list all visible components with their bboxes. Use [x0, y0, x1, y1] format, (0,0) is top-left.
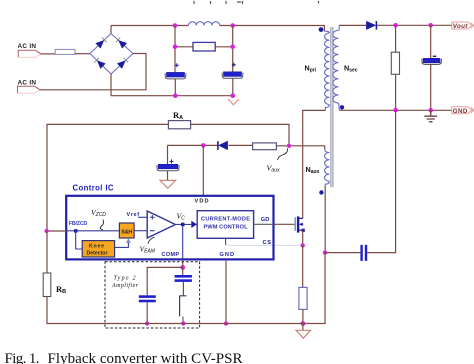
- phase dot secondary: [340, 105, 344, 109]
- junction: [428, 23, 433, 28]
- wire CS node to Rs: [302, 245, 304, 287]
- wire op-amp out: [175, 223, 191, 225]
- wire fuse to bridge: [75, 53, 90, 55]
- wire RB leads: [47, 231, 303, 324]
- svg-text:RB: RB: [56, 284, 66, 295]
- wire CS trace (faint): [226, 244, 303, 246]
- junction: [181, 321, 185, 325]
- bridge rectifier diamond: [90, 34, 133, 75]
- transformer secondary winding Nsec: [333, 25, 339, 110]
- wire Vref to op-amp: [139, 216, 147, 219]
- svg-text:AC IN: AC IN: [18, 43, 37, 50]
- inductor L1: [189, 22, 220, 26]
- resistor RA: [168, 121, 190, 129]
- wire COMP to C3 branch: [147, 267, 183, 295]
- wire P2 to bridge right vertex: [40, 54, 146, 90]
- junction VDD node: [201, 143, 206, 148]
- svg-text:PWM CONTROL: PWM CONTROL: [204, 225, 249, 231]
- port connector P2: [18, 86, 41, 93]
- junction: [428, 108, 433, 113]
- wire gate: [274, 223, 295, 225]
- wire Vout rail: [377, 24, 452, 26]
- wire secondary ground rail: [339, 109, 452, 111]
- svg-text:VZCD: VZCD: [91, 208, 106, 218]
- svg-text:CS: CS: [263, 240, 272, 246]
- wire C3 to ground bus: [146, 302, 148, 323]
- svg-text:RA: RA: [173, 110, 183, 121]
- capacitor Cout: [422, 56, 441, 64]
- junction: [230, 23, 235, 28]
- transformer aux winding Naux: [325, 149, 330, 186]
- svg-text:GND: GND: [220, 252, 235, 258]
- svg-text:FB/ZCD: FB/ZCD: [69, 221, 88, 227]
- wire left filter leg: [174, 26, 176, 73]
- junction: [173, 23, 178, 28]
- svg-text:Nsec: Nsec: [344, 64, 358, 74]
- capacitor C_VDD: [157, 159, 179, 170]
- transformer core: [331, 27, 333, 187]
- wire FB external: [47, 230, 67, 232]
- wire GD internal: [254, 223, 274, 225]
- earth ground (secondary): [424, 110, 437, 122]
- wire source: [302, 230, 304, 245]
- net label GND: [452, 107, 474, 115]
- signal arrow into PWM: [191, 221, 197, 228]
- wire COMP internal: [182, 226, 184, 259]
- junction: [231, 93, 236, 98]
- wire right filter leg: [232, 26, 234, 72]
- phase dot aux: [319, 190, 323, 194]
- svg-text:Vout: Vout: [453, 23, 468, 30]
- wire FB to knee detector: [76, 231, 83, 249]
- callout V_ZCD: [100, 220, 103, 231]
- resistor R jog (light): [179, 296, 186, 324]
- wire P1 to fuse: [41, 53, 55, 55]
- wire DC+ bus: [111, 26, 324, 32]
- junction: [145, 321, 149, 325]
- capacitor C2 bulk: [222, 63, 243, 79]
- wire C4 lead down: [182, 282, 184, 296]
- cropped title text fragments: [194, 1, 319, 4]
- wire IC GND pin to bus: [225, 261, 227, 324]
- wire RA top: [47, 124, 289, 231]
- wire FB internal: [66, 230, 119, 232]
- svg-text:VEAM: VEAM: [140, 245, 156, 255]
- bridge diode D1 (top-left, points NE): [96, 38, 107, 49]
- resistor Rs current sense: [299, 287, 307, 309]
- op-amp error comparator: [147, 211, 175, 238]
- svg-text:Knee: Knee: [89, 244, 104, 250]
- wire bridge minus down: [110, 74, 112, 96]
- junction primary ground: [301, 321, 306, 326]
- wire Rs to ground bus: [302, 309, 304, 323]
- resistor Rload: [391, 52, 399, 74]
- phase dot primary: [319, 27, 324, 32]
- svg-text:Amplifier: Amplifier: [111, 282, 139, 289]
- control IC box: [66, 196, 273, 260]
- resistor damping (filter): [193, 42, 215, 51]
- svg-text:CURRENT-MODE: CURRENT-MODE: [201, 217, 250, 223]
- junction FB pin: [74, 229, 77, 232]
- type 2 amplifier dashed box: [105, 262, 200, 328]
- bridge diode D3 (bottom-left, points NW): [95, 58, 106, 69]
- wire C2 to return bus: [232, 78, 234, 95]
- callout V_EAM: [148, 237, 155, 244]
- wire primary bottom to drain: [303, 110, 326, 218]
- resistor Rload leads: [395, 25, 397, 110]
- S and H block: [119, 223, 134, 238]
- fuse F1: [55, 49, 75, 54]
- wire knee to S&H with arrow: [115, 238, 131, 247]
- wire secondary top: [339, 24, 366, 26]
- svg-text:Naux: Naux: [306, 165, 320, 175]
- wire Vaux line: [168, 145, 325, 149]
- svg-text:Control IC: Control IC: [73, 184, 114, 193]
- PWM control block: [197, 211, 253, 239]
- junction Vaux node: [287, 144, 291, 148]
- label Type 2 Amplifier: [111, 275, 139, 289]
- capacitor Cout leads: [430, 25, 432, 110]
- svg-text:Vaux: Vaux: [267, 164, 281, 174]
- svg-text:Flyback converter with CV-PSR: Flyback converter with CV-PSR: [48, 351, 243, 364]
- junction CS node: [301, 243, 305, 247]
- callout curve Vaux: [278, 149, 288, 161]
- wire PWM ground stub: [225, 238, 227, 245]
- wire aux bottom: [324, 186, 326, 253]
- junction: [230, 45, 235, 50]
- svg-text:VDD: VDD: [195, 199, 209, 205]
- junction COMP: [180, 265, 185, 270]
- capacitor C4: [175, 275, 192, 282]
- junction aux return: [323, 250, 327, 254]
- svg-text:COMP: COMP: [162, 252, 180, 258]
- wire COMP external: [182, 261, 184, 268]
- junction: [173, 93, 178, 98]
- wire Y-cap to secondary gnd: [367, 110, 395, 253]
- svg-text:GD: GD: [261, 217, 270, 223]
- svg-text:AC IN: AC IN: [18, 80, 37, 87]
- svg-text:Fig. 1.: Fig. 1.: [5, 351, 40, 364]
- svg-text:Detector: Detector: [87, 251, 108, 257]
- svg-text:Npri: Npri: [305, 64, 317, 74]
- transistor Q1 power MOSFET: [295, 216, 305, 232]
- junction FB node: [44, 229, 48, 233]
- bridge diode D4 (bottom-right, points NE): [117, 58, 128, 69]
- wire C1 to return bus: [174, 79, 176, 96]
- resistor RB: [43, 273, 51, 297]
- junction: [393, 23, 398, 28]
- svg-text:Vref: Vref: [127, 212, 140, 218]
- wire bridge plus to DC bus: [110, 26, 112, 34]
- wire S&H to op-amp: [134, 230, 147, 232]
- net label Vout: [452, 22, 474, 30]
- wire VDD pin: [202, 145, 204, 195]
- diode D5 output rectifier: [366, 21, 376, 30]
- capacitor C_Y: [360, 245, 367, 261]
- resistor Raux: [253, 143, 277, 150]
- transformer primary winding Npri: [324, 31, 329, 110]
- capacitor C3: [139, 295, 156, 302]
- junction: [224, 321, 228, 325]
- bridge diode D2 (top-right, points NW): [116, 38, 127, 49]
- wire junction to Y-cap: [325, 252, 360, 254]
- ground triangle (primary): [296, 324, 311, 339]
- ground triangle (VDD cap): [160, 180, 176, 188]
- wire DC- return bus: [111, 95, 233, 97]
- diode D6 aux rectifier: [218, 141, 228, 150]
- capacitor C1 bulk: [165, 63, 186, 79]
- svg-text:VC: VC: [177, 211, 186, 221]
- wire aux return to ground bus: [303, 253, 325, 324]
- svg-text:GND: GND: [453, 108, 468, 115]
- wire COMP to C4: [182, 267, 184, 275]
- knee detector block: [82, 241, 114, 257]
- resistor damping (filter) leads: [175, 46, 233, 48]
- svg-text:Type 2: Type 2: [114, 275, 136, 281]
- capacitor C_VDD lead: [167, 145, 169, 180]
- ground arrow (input return): [228, 99, 239, 105]
- junction: [393, 108, 398, 113]
- junction: [173, 45, 178, 50]
- port connector P1: [18, 50, 41, 57]
- junction op-amp output: [181, 223, 185, 227]
- svg-text:S&H: S&H: [121, 229, 132, 235]
